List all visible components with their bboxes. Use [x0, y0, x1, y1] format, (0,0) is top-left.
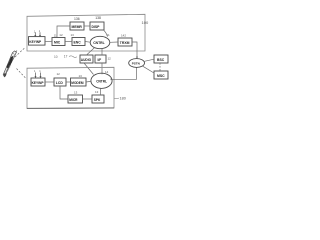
svg-text:PSTN: PSTN: [132, 62, 140, 66]
svg-text:MODEM: MODEM: [71, 81, 84, 85]
wire U1 to U2: [84, 25, 90, 27]
box U2 (upper sub-row right): [90, 22, 104, 30]
svg-text:180: 180: [120, 96, 126, 100]
svg-text:MSC: MSC: [157, 74, 165, 78]
wire circle-R1: [144, 59, 154, 61]
outer box 180 (lower device): [27, 67, 114, 108]
wire E1-T4: [110, 41, 118, 43]
svg-text:12: 12: [108, 57, 112, 61]
svg-text:BSC: BSC: [157, 58, 165, 62]
wire circle-R2: [142, 66, 154, 73]
wire E2 down to C2: [100, 88, 102, 95]
wire T3-E1: [85, 41, 90, 44]
box U1 (upper sub-row left): [70, 22, 84, 30]
dashed link pen to upper box: [15, 48, 25, 57]
svg-text:13: 13: [71, 33, 75, 37]
svg-text:12: 12: [57, 72, 61, 76]
box B3: [71, 78, 87, 86]
ellipse E2 cpu: [91, 73, 112, 88]
wire E2 right to circle: [112, 67, 136, 79]
arrows into B1: [36, 73, 41, 78]
svg-text:100: 100: [142, 20, 149, 25]
svg-text:KEYINP: KEYINP: [29, 40, 42, 44]
outer box 100 (upper device): [27, 14, 145, 51]
svg-text:TRXM: TRXM: [120, 41, 130, 45]
svg-text:MEMR: MEMR: [72, 25, 83, 29]
svg-text:MIC: MIC: [54, 41, 61, 45]
wire B1-B2: [45, 81, 54, 83]
wire B2 down to C1: [60, 86, 68, 99]
box T2 mic: [52, 38, 65, 46]
wire C1-C2: [83, 98, 93, 100]
box T3 codec: [72, 38, 85, 46]
svg-text:DISP: DISP: [92, 25, 101, 29]
wire U2 to ellipse E1: [104, 30, 108, 37]
wire T1-T2: [45, 41, 52, 43]
svg-text:11: 11: [54, 33, 57, 37]
wire U1 to T2: [57, 26, 70, 37]
svg-text:1: 1: [39, 29, 41, 33]
dashed link pen to lower box: [17, 69, 27, 79]
wire T4 to circle: [132, 42, 137, 58]
svg-text:13: 13: [74, 91, 78, 95]
svg-text:KEYINP: KEYINP: [32, 81, 45, 85]
wire E1 to M2: [101, 48, 103, 55]
box R2: [154, 71, 168, 79]
ellipse E1 cpu: [90, 36, 110, 48]
svg-text:13: 13: [79, 74, 83, 78]
box B1 input keys: [31, 78, 45, 86]
wire B2-B3: [66, 81, 71, 83]
box R1: [154, 55, 168, 63]
wire T2-T3: [65, 41, 72, 43]
arrows into T1: [35, 32, 40, 36]
svg-text:SPK: SPK: [94, 98, 101, 102]
svg-text:AUDIO: AUDIO: [81, 58, 92, 62]
box C1 lower sub-row: [68, 95, 83, 103]
wire M2 to E2: [101, 63, 103, 74]
box M1 shared left: [80, 55, 93, 63]
svg-text:1: 1: [39, 69, 41, 73]
svg-text:1: 1: [34, 69, 36, 73]
box T1 input keys: [29, 37, 46, 46]
box M2 shared right: [95, 55, 106, 63]
svg-text:136: 136: [74, 17, 80, 21]
svg-text:17: 17: [64, 54, 68, 58]
box C2 lower sub-row: [92, 95, 104, 103]
label 180 leader: [114, 97, 119, 100]
wire M1 to E2: [84, 63, 94, 75]
svg-text:12: 12: [59, 33, 63, 37]
svg-text:13: 13: [95, 90, 99, 94]
box T4 tx: [118, 38, 132, 46]
svg-text:MICR: MICR: [69, 98, 78, 102]
svg-text:ENC: ENC: [74, 41, 82, 45]
svg-text:I/F: I/F: [98, 58, 102, 62]
svg-text:CNTRL: CNTRL: [93, 41, 105, 45]
svg-text:138: 138: [95, 16, 101, 20]
wire E1 to M1: [87, 48, 95, 55]
circle network node: [129, 59, 145, 68]
stylus pen sketch: [3, 51, 17, 77]
wire B3-E2 arrow: [86, 80, 91, 83]
svg-text:LCD: LCD: [56, 81, 64, 85]
wire R1-R2 dashed: [159, 63, 161, 71]
svg-text:CNTRL: CNTRL: [96, 79, 107, 83]
svg-text:142: 142: [121, 33, 126, 37]
svg-text:11: 11: [107, 33, 110, 37]
box B2: [54, 78, 66, 86]
svg-text:10: 10: [54, 55, 58, 59]
